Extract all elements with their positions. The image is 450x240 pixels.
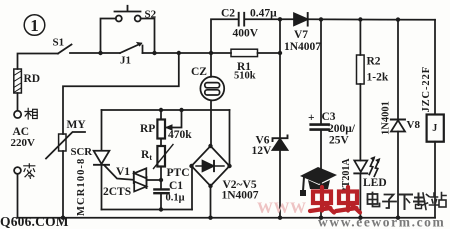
wire: live rail top horizontal y=53 from S1 to R1 (18, 54, 59, 70)
svg-text:J1: J1 (120, 55, 131, 67)
svg-text:CZ: CZ (191, 66, 207, 78)
potentiometer RP body (160, 110, 162, 120)
bridge inner diode (196, 165, 224, 167)
capacitor C3 plates (311, 123, 329, 126)
wire: V7 to right corner (308, 18, 435, 21)
svg-text:Rt: Rt (141, 149, 152, 162)
watermark site name glyphs (dian zi xia zai zhan) (368, 193, 447, 210)
svg-text:V1: V1 (116, 166, 130, 178)
relay contact J1 blade (120, 44, 141, 54)
wire bridge right up to box top (229, 110, 231, 166)
wire: V8 branch (397, 20, 399, 120)
wire: branch to varistor MY (63, 53, 179, 134)
wire: MY to rail (62, 151, 64, 218)
watermark chong glyph 2 (red bug char) (336, 187, 360, 213)
capacitor C2 plates (239, 13, 245, 26)
wire: C3 branch (320, 19, 322, 124)
bridge rectifier V2-V5 diamond (192, 146, 230, 186)
varistor MY arrow (46, 132, 85, 159)
svg-text:0.1μ: 0.1μ (166, 193, 185, 204)
wire bridge bottom to rail (210, 186, 212, 218)
wire V1 to node (147, 179, 162, 181)
pushbutton S2 right lead (141, 19, 155, 54)
socket CZ slots (205, 83, 220, 88)
svg-text:C3: C3 (322, 111, 336, 123)
terminal label ling (neutral) (24, 164, 35, 179)
svg-text:R2: R2 (367, 56, 381, 68)
svg-text:S2: S2 (145, 9, 157, 21)
svg-text:200μ/: 200μ/ (328, 123, 356, 135)
capacitor C1 plates (154, 188, 168, 190)
circled figure number 1 (24, 15, 45, 36)
wire: J1 to R1 (143, 52, 232, 54)
glyph zhan (430, 193, 439, 205)
resistor RD body (14, 69, 22, 93)
svg-text:MCR100-8: MCR100-8 (76, 158, 87, 216)
svg-text:+: + (308, 112, 315, 124)
svg-text:1N4007: 1N4007 (284, 41, 321, 53)
switch S1 blade (58, 45, 72, 54)
terminal 相 (phase) (17, 93, 19, 111)
wire: R1 right lead (258, 52, 281, 54)
wire: CZ branch from live rail (210, 53, 212, 77)
control box right wire to bridge (191, 166, 193, 210)
svg-text:470k: 470k (168, 129, 192, 141)
svg-text:12V: 12V (252, 145, 273, 157)
pushbutton S2 contacts (116, 16, 122, 22)
glyph dian (368, 194, 378, 204)
svg-text:400V: 400V (233, 28, 259, 40)
varistor MY body (59, 134, 66, 151)
terminal label xiang (phase) (25, 108, 37, 119)
potentiometer RP wiper (167, 110, 182, 128)
glyph zi (385, 195, 394, 209)
svg-text:WWW: WWW (257, 200, 307, 217)
svg-text:JZC-22F: JZC-22F (421, 66, 432, 113)
wire Rt to node (160, 167, 162, 189)
svg-text:25V: 25V (329, 135, 350, 147)
svg-text:510k: 510k (234, 71, 256, 82)
svg-text:0.47μ: 0.47μ (250, 8, 277, 20)
thyristor SCR (94, 151, 110, 164)
svg-text:C2: C2 (221, 8, 235, 20)
wire: vertical node x=280 (C2/R1/V6) (279, 19, 281, 138)
wire: relay J branch (434, 20, 436, 115)
svg-text:MY: MY (67, 119, 87, 131)
svg-text:V8: V8 (407, 119, 421, 131)
wire: R2/LED branch (359, 20, 361, 56)
svg-text:1: 1 (30, 16, 39, 35)
pushbutton S2 actuator bar (115, 6, 141, 12)
terminal 零 (neutral) (14, 167, 21, 174)
svg-text:www.eeworm.com: www.eeworm.com (318, 215, 445, 230)
svg-text:1-2k: 1-2k (367, 72, 389, 84)
diac V1 (133, 172, 135, 183)
watermark graduation cap (300, 167, 337, 196)
SCR gate wire (105, 166, 134, 180)
glyph zai (414, 194, 425, 206)
relay coil J box (427, 115, 444, 142)
svg-text:220V: 220V (11, 137, 36, 149)
watermark chong glyph 1 (red bug char) (310, 187, 334, 213)
svg-text:V7: V7 (294, 29, 308, 41)
diode V7 (294, 13, 308, 25)
svg-text:1N4007: 1N4007 (222, 190, 259, 202)
svg-text:2CTS: 2CTS (103, 186, 131, 198)
thermistor Rt body (160, 139, 162, 147)
svg-text:1N4001: 1N4001 (381, 101, 392, 135)
LED emission arrows (369, 158, 374, 174)
svg-text:RP: RP (140, 123, 155, 135)
wire: C2 to V7 (245, 18, 295, 20)
glyph xia (399, 194, 412, 196)
diode V8 (391, 119, 405, 121)
resistor R1 body (231, 49, 258, 56)
ground/neutral bottom rail (18, 217, 436, 219)
socket CZ circle (200, 77, 224, 101)
wire: S1 to S2 node (70, 52, 120, 54)
svg-text:SCR: SCR (71, 146, 93, 158)
svg-text:PTC: PTC (167, 167, 190, 179)
svg-text:RD: RD (24, 73, 41, 85)
svg-text:S1: S1 (53, 37, 65, 49)
svg-text:LED: LED (363, 177, 387, 189)
wire: C2 branch up (211, 19, 238, 53)
control box left wire / SCR anode (101, 110, 103, 151)
control box top wire (102, 109, 230, 111)
zener V6 (273, 135, 288, 141)
LED triangle (354, 161, 367, 172)
resistor R2 body (357, 55, 365, 84)
svg-text:Q606.COM: Q606.COM (0, 214, 69, 229)
svg-text:C1: C1 (169, 180, 183, 192)
pushbutton S2 left lead (101, 19, 116, 54)
svg-text:J: J (432, 123, 437, 134)
control box bottom wire (102, 209, 193, 211)
wire: CZ to bridge top (210, 100, 212, 146)
